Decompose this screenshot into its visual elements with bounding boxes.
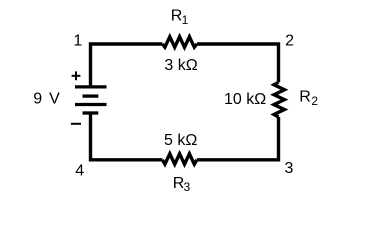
svg-text:4: 4 (75, 162, 84, 179)
svg-text:3: 3 (184, 180, 191, 194)
svg-text:5 kΩ: 5 kΩ (164, 132, 197, 149)
svg-text:R: R (299, 89, 311, 106)
svg-text:V: V (49, 91, 60, 108)
svg-text:3: 3 (285, 160, 294, 177)
svg-text:3 kΩ: 3 kΩ (164, 57, 197, 74)
svg-text:1: 1 (182, 13, 189, 27)
svg-text:2: 2 (311, 94, 318, 108)
svg-text:1: 1 (73, 33, 82, 50)
svg-text:2: 2 (285, 33, 294, 50)
svg-text:10 kΩ: 10 kΩ (224, 91, 266, 108)
svg-text:9: 9 (33, 91, 42, 108)
